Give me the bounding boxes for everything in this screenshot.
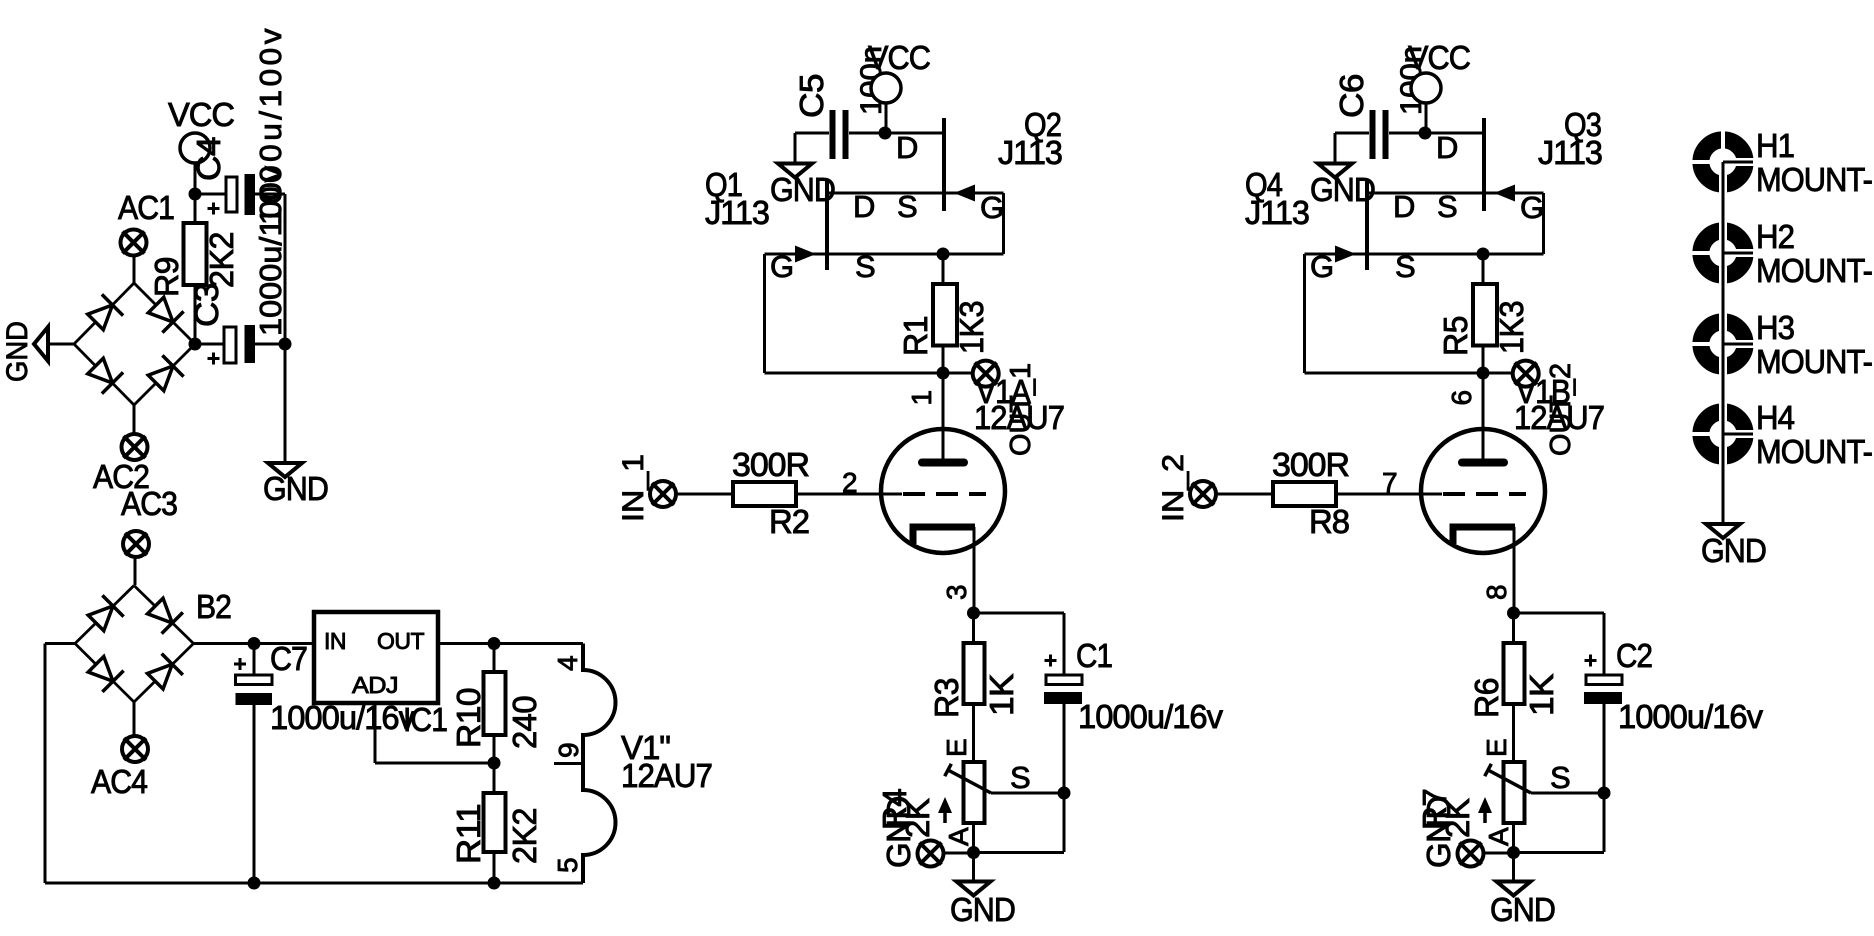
- wire C5 right: [849, 132, 885, 135]
- wire R3 bottom: [972, 704, 975, 762]
- wire to C4: [195, 193, 227, 196]
- port AC1: [121, 230, 147, 256]
- power port VCC (circle): [1411, 73, 1441, 103]
- svg-text:1000u/100v: 1000u/100v: [253, 165, 288, 336]
- wire R10 bottom: [493, 735, 496, 763]
- mounting hole H2: [1692, 222, 1754, 284]
- wire R5 top: [1482, 254, 1485, 284]
- junction R11 bottom rail: [488, 877, 501, 890]
- junction bottom node: [1507, 846, 1520, 859]
- capacitor C3 plus sign: [208, 353, 220, 365]
- capacitor C7 top plate: [236, 675, 273, 685]
- capacitor C5 right plate: [843, 110, 849, 159]
- junction wiper cap: [1598, 787, 1611, 800]
- junction anode node: [937, 367, 950, 380]
- svg-text:VCC: VCC: [868, 39, 930, 76]
- diode D5 (bridge B2 top-left): [85, 595, 123, 633]
- wire C1 bottom: [1063, 704, 1066, 852]
- svg-text:AC3: AC3: [121, 485, 177, 522]
- svg-text:C3: C3: [188, 283, 225, 327]
- resistor R1: [933, 284, 957, 346]
- wire to C1: [974, 612, 1065, 615]
- tube V1A anode plate: [922, 459, 964, 467]
- transistor Q2 gate arrow: [954, 185, 975, 202]
- svg-text:GND: GND: [950, 891, 1015, 928]
- svg-text:5: 5: [552, 857, 583, 873]
- wire drain Q2: [885, 132, 944, 135]
- svg-text:S: S: [1550, 760, 1571, 795]
- diode D1 (bridge B1 top-left): [85, 294, 123, 332]
- svg-text:MOUNT-: MOUNT-: [1756, 161, 1872, 198]
- wire cathode down: [973, 527, 976, 613]
- wire left rail down: [44, 644, 47, 884]
- junction VCC node: [189, 188, 202, 201]
- svg-text:A: A: [1483, 827, 1514, 846]
- junction R10 top: [488, 637, 501, 650]
- capacitor C3 left plate: [224, 327, 236, 363]
- wire bridge B2 left out: [45, 642, 75, 645]
- svg-text:IN_1: IN_1: [617, 454, 650, 522]
- svg-text:S: S: [897, 189, 918, 224]
- capacitor C5 left plate: [830, 110, 836, 159]
- junction bridge B1 output: [189, 338, 202, 351]
- regulator IC1 box: [314, 612, 438, 703]
- tube V1 heater filament: [583, 644, 616, 884]
- svg-text:J113: J113: [1245, 194, 1309, 231]
- capacitor C3 right plate (polarized): [245, 325, 256, 363]
- port AC2: [122, 434, 148, 460]
- wire C2 top: [1603, 613, 1606, 675]
- wire C6 left: [1335, 132, 1369, 135]
- capacitor C1 bottom plate (polarized): [1044, 692, 1082, 704]
- svg-text:H2: H2: [1756, 218, 1794, 255]
- svg-text:3: 3: [941, 584, 972, 600]
- transistor Q2 J113 channel bar: [942, 118, 946, 211]
- wire rail to ground: [284, 344, 287, 462]
- transistor Q4 gate arrow: [1335, 246, 1356, 263]
- svg-text:12AU7: 12AU7: [621, 757, 712, 794]
- ground GND (below C3): [268, 463, 302, 477]
- wire to output port OUT_1: [943, 372, 973, 375]
- svg-text:S: S: [1395, 249, 1416, 284]
- ground GND (mount holes): [1706, 524, 1740, 538]
- resistor R3: [964, 643, 985, 704]
- wire source/gate rail bottom: [765, 253, 1004, 256]
- wire R9 bottom: [194, 285, 197, 344]
- wire ADJ to R10/R11: [375, 762, 494, 765]
- wire R7 bottom: [1512, 823, 1515, 852]
- wire to C3: [195, 343, 224, 346]
- port AC3: [123, 531, 149, 557]
- wire IC1 OUT to heater: [438, 642, 583, 645]
- wire bottom to cap: [974, 851, 1065, 854]
- wire loop left edge: [763, 254, 766, 373]
- resistor R6: [1504, 643, 1525, 704]
- svg-text:VCC: VCC: [168, 96, 234, 133]
- wire C1 top: [1063, 613, 1066, 675]
- svg-text:S: S: [1437, 189, 1458, 224]
- port GND: [918, 841, 944, 867]
- svg-text:VCC: VCC: [1408, 39, 1470, 76]
- resistor R10: [484, 672, 506, 735]
- wire rail down: [284, 194, 287, 344]
- wire C6 right: [1389, 132, 1425, 135]
- wire loop left edge: [1303, 254, 1306, 373]
- capacitor C2 plus sign: [1585, 655, 1597, 667]
- svg-text:MOUNT-: MOUNT-: [1756, 433, 1872, 470]
- wire to C2: [1514, 612, 1605, 615]
- svg-text:300R: 300R: [732, 446, 809, 483]
- junction cathode node: [1507, 607, 1520, 620]
- transistor Q3 gate arrow: [1494, 185, 1515, 202]
- mounting hole H3: [1692, 313, 1754, 375]
- transistor Q1 gate arrow: [795, 246, 816, 263]
- svg-text:1K3: 1K3: [1493, 301, 1530, 354]
- svg-text:IC1: IC1: [403, 701, 447, 738]
- wire R11 top: [493, 763, 496, 793]
- wire R1 bottom: [942, 346, 945, 374]
- bridge rectifier B2 diamond: [75, 586, 194, 703]
- resistor R11: [484, 793, 506, 852]
- bridge rectifier B1 diamond: [74, 283, 195, 405]
- wire bridge B2 to AC4: [133, 702, 136, 737]
- port OUT_1: [973, 361, 999, 387]
- svg-text:GND: GND: [1490, 891, 1555, 928]
- capacitor C6 left plate: [1370, 110, 1376, 159]
- svg-text:S: S: [855, 249, 876, 284]
- svg-text:GND: GND: [263, 470, 328, 507]
- wire C3 to rail: [255, 343, 285, 346]
- tube V1B triode envelope: [1421, 429, 1545, 553]
- wire AC3 to bridge B2: [134, 556, 137, 585]
- capacitor C2 top plate: [1586, 675, 1622, 685]
- wire R4 bottom: [972, 823, 975, 852]
- capacitor C1 plus sign: [1045, 655, 1057, 667]
- junction cathode node: [967, 607, 980, 620]
- capacitor C7 bottom plate (polarized): [236, 693, 273, 705]
- wire GND port to junction: [1482, 852, 1514, 855]
- diode D7 (bridge B2 bottom-left): [85, 654, 123, 692]
- svg-text:300R: 300R: [1272, 446, 1349, 483]
- wire C5 left: [795, 132, 829, 135]
- svg-text:MOUNT-: MOUNT-: [1756, 343, 1872, 380]
- wire IN_2 to R8: [1215, 493, 1273, 496]
- diode D2 (bridge B1 top-right): [145, 294, 183, 332]
- wire to ground: [972, 853, 975, 882]
- svg-text:4: 4: [552, 655, 583, 671]
- tube V1A triode envelope: [881, 429, 1005, 553]
- svg-text:AC1: AC1: [118, 189, 174, 226]
- ground GND (left of bridge B1): [34, 327, 48, 361]
- wire R6 top: [1512, 613, 1515, 643]
- wire to ground: [1512, 853, 1515, 882]
- svg-text:C1: C1: [1076, 637, 1112, 674]
- svg-text:6: 6: [1446, 390, 1477, 406]
- junction C7 bottom rail: [248, 877, 261, 890]
- svg-text:H4: H4: [1756, 399, 1795, 436]
- wire VCC stub: [1425, 103, 1428, 133]
- ground GND (under C6): [1318, 164, 1352, 178]
- svg-text:1000u/16v: 1000u/16v: [1618, 698, 1763, 735]
- capacitor C2 bottom plate (polarized): [1584, 692, 1622, 704]
- wire loop right edge: [1002, 193, 1005, 254]
- wire bottom to cap: [1514, 851, 1605, 854]
- svg-text:J113: J113: [705, 194, 769, 231]
- svg-text:ADJ: ADJ: [352, 672, 398, 698]
- svg-text:C6: C6: [1333, 74, 1370, 118]
- ground GND (bottom): [1497, 882, 1531, 896]
- wire to ground: [1334, 133, 1337, 163]
- svg-text:G: G: [1520, 190, 1544, 225]
- diode D3 (bridge B1 bottom-left): [85, 355, 123, 393]
- power port VCC (circle): [871, 73, 901, 103]
- wire to ground: [794, 133, 797, 163]
- junction R10 R11: [488, 757, 501, 770]
- ground GND (under C5): [778, 164, 812, 178]
- wire R10 top: [493, 644, 496, 673]
- transistor Q3 J113 channel bar: [1482, 118, 1486, 211]
- svg-text:1: 1: [906, 390, 937, 406]
- svg-text:MOUNT-: MOUNT-: [1756, 252, 1872, 289]
- svg-text:R5: R5: [1437, 316, 1474, 356]
- diode D4 (bridge B1 bottom-right): [145, 355, 183, 393]
- svg-text:G: G: [770, 249, 794, 284]
- capacitor C4 plus sign: [208, 203, 220, 215]
- junction VCC node: [1419, 127, 1432, 140]
- junction bottom node: [967, 846, 980, 859]
- capacitor C4 left plate: [226, 177, 237, 212]
- wire drain Q3: [1425, 132, 1484, 135]
- trimmer R7 wiper: [1485, 764, 1531, 793]
- svg-text:GND: GND: [880, 796, 917, 868]
- wire grid: [796, 493, 902, 496]
- svg-text:J113: J113: [1538, 134, 1602, 171]
- wire bridge B1 to GND: [48, 343, 74, 346]
- wire R9 top: [194, 194, 197, 223]
- wire C4 to rail: [255, 193, 285, 196]
- trimmer R7 adjust arrow: [1478, 797, 1492, 823]
- svg-text:GND: GND: [1, 321, 34, 382]
- wire source/gate rail bottom: [1305, 253, 1544, 256]
- svg-text:R11: R11: [450, 804, 487, 864]
- wire C7 bottom: [253, 705, 256, 883]
- svg-text:D: D: [853, 189, 875, 224]
- svg-text:OUT: OUT: [377, 628, 424, 654]
- transistor Q1 J113 channel bar: [825, 179, 829, 270]
- mounting hole H1: [1692, 131, 1754, 193]
- svg-text:G: G: [980, 190, 1004, 225]
- wire wiper to cap: [991, 792, 1064, 795]
- wire to output port OUT_2: [1483, 372, 1513, 375]
- svg-text:GND: GND: [1701, 532, 1766, 569]
- capacitor C7 plus sign: [234, 658, 246, 670]
- wire VCC stub: [885, 103, 888, 133]
- svg-text:R8: R8: [1309, 503, 1349, 540]
- svg-text:R9: R9: [148, 257, 185, 297]
- svg-text:12AU7: 12AU7: [1514, 399, 1604, 436]
- svg-text:R3: R3: [928, 678, 965, 718]
- wire loop bottom: [1305, 372, 1484, 375]
- ground GND (bottom): [957, 882, 991, 896]
- port IN_1: [650, 481, 676, 507]
- tube V1B cathode: [1453, 527, 1515, 544]
- svg-text:R1: R1: [897, 316, 934, 356]
- svg-text:AC4: AC4: [91, 763, 148, 800]
- diode D6 (bridge B2 top-right): [145, 595, 183, 633]
- capacitor C6 right plate: [1383, 110, 1389, 159]
- svg-text:9: 9: [553, 742, 584, 758]
- tube V1B grid (dashed): [1443, 492, 1526, 496]
- svg-text:D: D: [1436, 130, 1458, 165]
- trimmer R4 body: [964, 762, 985, 823]
- wire C7 top: [253, 644, 256, 676]
- trimmer R7 body: [1504, 762, 1525, 823]
- wire loop right edge: [1542, 193, 1545, 254]
- svg-text:D: D: [896, 130, 918, 165]
- trimmer R4 adjust arrow: [938, 797, 952, 823]
- wire bottom rail: [45, 882, 583, 885]
- svg-text:S: S: [1010, 760, 1031, 795]
- junction wiper cap: [1058, 787, 1071, 800]
- junction VCC node: [879, 127, 892, 140]
- tube V1A cathode: [913, 527, 975, 544]
- svg-text:1K: 1K: [1523, 673, 1560, 716]
- svg-text:G: G: [1310, 249, 1334, 284]
- wire R5 bottom: [1482, 346, 1485, 374]
- svg-text:8: 8: [1481, 584, 1512, 600]
- wire IC1 ADJ down: [374, 703, 377, 763]
- svg-text:H1: H1: [1756, 127, 1794, 164]
- wire cathode down: [1513, 527, 1516, 613]
- capacitor C1 top plate: [1046, 675, 1082, 685]
- svg-text:R10: R10: [450, 688, 487, 748]
- svg-text:IN_2: IN_2: [1157, 454, 1190, 522]
- port OUT_2: [1513, 361, 1539, 387]
- svg-text:12AU7: 12AU7: [974, 399, 1064, 436]
- svg-text:E: E: [1481, 738, 1512, 757]
- svg-text:2K2: 2K2: [506, 808, 543, 864]
- resistor R5: [1473, 284, 1497, 346]
- resistor R9: [184, 223, 207, 285]
- wire source/gate rail top: [1367, 192, 1544, 195]
- transistor Q4 J113 channel bar: [1365, 179, 1369, 270]
- capacitor C4 right plate (polarized): [245, 174, 256, 215]
- svg-text:C4: C4: [190, 137, 227, 181]
- diode D8 (bridge B2 bottom-right): [145, 654, 183, 692]
- wire R3 top: [972, 613, 975, 643]
- svg-text:1K3: 1K3: [953, 301, 990, 354]
- trimmer R4 wiper: [945, 764, 991, 793]
- wire anode: [942, 373, 945, 459]
- tube V1A grid (dashed): [903, 492, 986, 496]
- junction anode node: [1477, 367, 1490, 380]
- wire mounting holes to GND: [1722, 162, 1725, 524]
- svg-text:IN: IN: [324, 628, 346, 654]
- wire anode: [1482, 373, 1485, 459]
- wire R1 top: [942, 254, 945, 284]
- wire loop bottom: [765, 372, 944, 375]
- wire grid: [1336, 493, 1442, 496]
- mounting hole H4: [1692, 403, 1754, 465]
- junction rail C3: [279, 338, 292, 351]
- junction C7 top: [248, 637, 261, 650]
- wire IN_1 to R2: [675, 493, 733, 496]
- resistor R8: [1273, 482, 1336, 506]
- svg-text:B2: B2: [196, 588, 231, 625]
- svg-text:D: D: [1393, 189, 1415, 224]
- port GND: [1458, 841, 1484, 867]
- svg-text:C2: C2: [1616, 637, 1652, 674]
- svg-text:240: 240: [506, 696, 543, 749]
- power port VCC (circle): [180, 133, 210, 163]
- wire wiper to cap: [1531, 792, 1604, 795]
- svg-text:E: E: [941, 738, 972, 757]
- wire bridge B1 to AC2: [133, 405, 136, 435]
- wire bridge B2 plus to IC1 IN: [194, 642, 315, 645]
- wire GND port to junction: [942, 852, 974, 855]
- svg-text:1000u/16v: 1000u/16v: [1078, 698, 1223, 735]
- wire R11 bottom: [493, 852, 496, 883]
- wire VCC stub: [194, 163, 197, 194]
- wire C2 bottom: [1603, 704, 1606, 852]
- wire source/gate rail top: [827, 192, 1004, 195]
- svg-text:A: A: [943, 827, 974, 846]
- svg-text:H3: H3: [1756, 309, 1794, 346]
- junction source node: [937, 248, 950, 261]
- junction source node: [1477, 248, 1490, 261]
- svg-text:1K: 1K: [983, 673, 1020, 716]
- port IN_2: [1190, 481, 1216, 507]
- wire R6 bottom: [1512, 704, 1515, 762]
- port AC4: [122, 736, 148, 762]
- wire heater pin 9 stub: [554, 762, 583, 765]
- svg-text:C5: C5: [793, 74, 830, 118]
- svg-text:C7: C7: [270, 640, 307, 677]
- resistor R2: [733, 482, 796, 506]
- tube V1B anode plate: [1462, 459, 1504, 467]
- svg-text:R6: R6: [1468, 678, 1505, 718]
- svg-text:J113: J113: [998, 134, 1062, 171]
- svg-text:GND: GND: [1420, 796, 1457, 868]
- svg-text:2K2: 2K2: [203, 232, 240, 288]
- svg-text:R2: R2: [769, 503, 809, 540]
- wire AC1 to bridge: [133, 255, 136, 284]
